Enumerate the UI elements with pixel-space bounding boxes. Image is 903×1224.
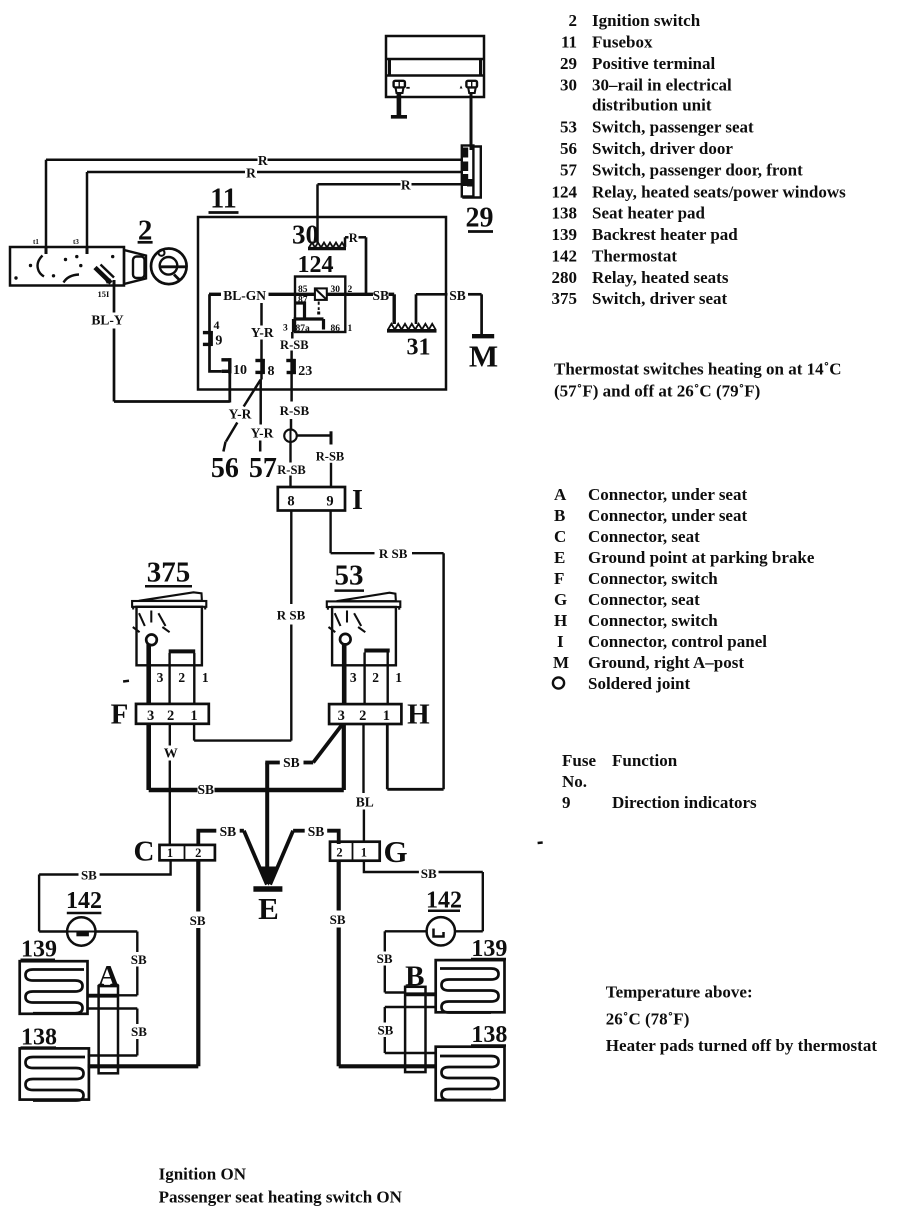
- svg-text:Connector, seat: Connector, seat: [588, 590, 700, 609]
- lamp rays 375: [133, 611, 170, 633]
- svg-text:30–rail in electrical: 30–rail in electrical: [592, 76, 732, 95]
- svg-text:29: 29: [560, 54, 577, 73]
- svg-text:Relay, heated seats/power wind: Relay, heated seats/power windows: [592, 183, 846, 202]
- connector B: [405, 987, 425, 1072]
- wire SB diagonal from H pin 3: [313, 725, 342, 763]
- wire pad 139 return loop: [88, 1007, 138, 1009]
- fuse terminal staple 4: [203, 331, 213, 346]
- svg-text:Connector, control panel: Connector, control panel: [588, 632, 767, 651]
- svg-text:A: A: [554, 485, 567, 504]
- svg-text:56: 56: [560, 139, 577, 158]
- svg-text:3: 3: [147, 708, 154, 724]
- wire BL below H pin 2: [362, 724, 364, 793]
- svg-text:I: I: [352, 485, 363, 516]
- svg-text:2: 2: [359, 708, 366, 724]
- svg-text:Connector, switch: Connector, switch: [588, 569, 718, 588]
- svg-text:R-SB: R-SB: [316, 449, 344, 463]
- relay coil feed wires: [295, 293, 315, 296]
- ignition switch contact curve left: [38, 256, 44, 277]
- svg-text:SB: SB: [373, 288, 390, 303]
- lamp 375: [146, 635, 157, 646]
- svg-text:Temperature above:: Temperature above:: [606, 983, 753, 1002]
- svg-text:Y-R: Y-R: [251, 426, 274, 441]
- svg-text:SB: SB: [220, 824, 237, 839]
- svg-text:8: 8: [287, 493, 294, 509]
- svg-text:distribution unit: distribution unit: [592, 96, 712, 115]
- terminal staple 8: [255, 359, 264, 374]
- wire pad 138 feed bold (right): [339, 1064, 436, 1068]
- switch 53: [327, 559, 402, 704]
- wire battery positive to terminal 29: [470, 93, 473, 150]
- wire BL-GN relay 85 to fuse: [269, 293, 296, 296]
- svg-text:BL: BL: [356, 794, 374, 809]
- svg-text:23: 23: [298, 364, 312, 379]
- svg-text:1: 1: [190, 708, 197, 724]
- svg-text:Fuse: Fuse: [562, 751, 596, 770]
- wire 30-rail to relay (R): [344, 237, 347, 247]
- svg-text:Thermostat switches heating on: Thermostat switches heating on at 14˚C: [554, 360, 842, 379]
- heater pad 138 (right): [436, 1047, 505, 1101]
- svg-text:375: 375: [552, 289, 578, 308]
- wire SB drop to ground E: [265, 763, 269, 869]
- svg-text:2: 2: [569, 11, 578, 30]
- wire pin 1: [387, 653, 389, 705]
- wire Y-R stub to 57 (vertical): [259, 380, 262, 425]
- svg-text:t3: t3: [73, 238, 79, 246]
- ground E bar: [253, 886, 282, 892]
- relay armature (dashed): [318, 302, 320, 311]
- svg-text:87a: 87a: [296, 324, 311, 334]
- svg-text:SB: SB: [308, 824, 325, 839]
- svg-text:G: G: [383, 834, 407, 869]
- thermostat note: [554, 360, 842, 401]
- wire Y-R relay 87 branch: [260, 303, 263, 326]
- svg-text:53: 53: [560, 118, 577, 137]
- svg-text:R SB: R SB: [379, 546, 408, 561]
- wire SB bus horizontal: [149, 788, 198, 792]
- wire lamp stem 375 (pin 3): [146, 644, 151, 704]
- svg-text:57: 57: [560, 161, 578, 180]
- svg-text:2: 2: [372, 670, 379, 685]
- svg-text:Passenger seat heating switch: Passenger seat heating switch ON: [159, 1188, 403, 1207]
- soldered joint: [289, 429, 291, 442]
- relay contact bar: [294, 317, 324, 320]
- wire SB bold from G pin 2 down: [337, 861, 341, 911]
- svg-text:10: 10: [233, 363, 247, 378]
- svg-text:I: I: [557, 632, 564, 651]
- wire SB bold below H pin 3: [342, 724, 346, 790]
- wire pad 139 feed through A: [88, 994, 119, 998]
- ignition switch 2: [10, 247, 124, 286]
- rocker 375: [139, 592, 202, 601]
- svg-text:W: W: [164, 747, 178, 762]
- svg-text:8: 8: [268, 364, 275, 379]
- svg-text:Relay, heated seats: Relay, heated seats: [592, 268, 729, 287]
- wire SB stub from G2: [327, 831, 339, 844]
- pin tick (terminal 3): [86, 247, 89, 254]
- body 53: [332, 607, 396, 665]
- svg-text:138: 138: [552, 204, 578, 223]
- relay coil: [315, 288, 327, 300]
- svg-text:R: R: [349, 231, 359, 245]
- pin tick (terminal 1): [45, 247, 48, 254]
- svg-text:SB: SB: [190, 913, 206, 928]
- wire R-SB joint to pin 8: [289, 442, 291, 462]
- wire SB from G pin 1 to thermostat (right): [364, 861, 419, 872]
- svg-text:B: B: [554, 506, 565, 525]
- wire riser to fuse terminal 10: [228, 359, 231, 403]
- wire R-SB joint branch to pin 9: [297, 434, 331, 436]
- wire R-SB to soldered joint: [290, 419, 293, 429]
- heater pad 139 (right): [436, 960, 505, 1012]
- wire battery negative stem: [397, 93, 402, 116]
- svg-text:BL-GN: BL-GN: [223, 288, 266, 303]
- wire pin 2: [363, 653, 365, 705]
- svg-text:2: 2: [195, 846, 201, 860]
- svg-text:A: A: [98, 960, 119, 992]
- svg-text:R: R: [258, 153, 268, 168]
- svg-text:M: M: [553, 653, 569, 672]
- wire SB bold from C pin 2 down: [196, 860, 200, 911]
- svg-text:3: 3: [338, 708, 345, 724]
- svg-text:Positive terminal: Positive terminal: [592, 54, 715, 73]
- svg-text:1: 1: [202, 670, 209, 685]
- svg-text:R-SB: R-SB: [280, 403, 310, 418]
- svg-text:Ignition switch: Ignition switch: [592, 11, 701, 30]
- svg-text:11: 11: [210, 184, 236, 215]
- connector I: [278, 487, 345, 511]
- bezel 53: [327, 601, 401, 607]
- rocker 53: [337, 593, 396, 602]
- svg-text:Ground point at parking brake: Ground point at parking brake: [588, 548, 815, 567]
- wire SB from C pin 1 to thermostat: [100, 860, 171, 874]
- relay contact 87 stub: [295, 303, 305, 319]
- svg-text:G: G: [554, 590, 567, 609]
- svg-text:R-SB: R-SB: [277, 463, 305, 477]
- lamp rays 53: [329, 611, 366, 633]
- svg-text:30: 30: [292, 220, 319, 250]
- wire R SB from I pin 9: [329, 511, 331, 554]
- battery 1: [386, 36, 484, 97]
- svg-text:142: 142: [66, 888, 102, 914]
- svg-text:Heater pads turned off by ther: Heater pads turned off by thermostat: [606, 1036, 878, 1055]
- fuse table: [562, 751, 757, 812]
- svg-text:(57˚F) and off at 26˚C (79˚F): (57˚F) and off at 26˚C (79˚F): [554, 382, 760, 401]
- svg-text:1: 1: [361, 845, 367, 859]
- wire lamp stem 53 (pin 3): [342, 643, 347, 704]
- wire pin 2: [168, 653, 170, 704]
- heater pad 138 (left): [20, 1048, 89, 1099]
- heater pad 139 (left): [20, 961, 88, 1014]
- ignition switch contact dots: [14, 255, 114, 280]
- svg-text:Connector, seat: Connector, seat: [588, 527, 700, 546]
- legend connector list: [553, 485, 815, 693]
- svg-text:86: 86: [331, 324, 341, 334]
- svg-text:R-SB: R-SB: [280, 338, 308, 352]
- wire SB stub from C2: [198, 831, 216, 844]
- svg-text:1: 1: [383, 708, 390, 724]
- ground bar at battery negative: [391, 115, 407, 119]
- wire SB relay to rail 31: [345, 293, 373, 296]
- svg-text:124: 124: [552, 183, 578, 202]
- svg-text:C: C: [134, 836, 155, 868]
- svg-text:Switch, driver door: Switch, driver door: [592, 139, 733, 158]
- svg-text:Switch, passenger seat: Switch, passenger seat: [592, 118, 754, 137]
- svg-text:SB: SB: [377, 1022, 393, 1037]
- svg-text:Y-R: Y-R: [229, 407, 252, 422]
- svg-text:Fusebox: Fusebox: [592, 33, 653, 52]
- svg-text:Y-R: Y-R: [251, 325, 274, 340]
- wire R-SB relay 87a branch: [291, 332, 294, 339]
- svg-text:Direction indicators: Direction indicators: [612, 793, 757, 812]
- svg-text:SB: SB: [131, 1024, 147, 1039]
- positive terminal 29: [462, 146, 481, 198]
- wire SB thermostat to connector B: [385, 930, 427, 932]
- bezel 375: [132, 601, 206, 607]
- wire pad 139 feed through B (right): [405, 992, 436, 996]
- svg-text:Ground, right A–post: Ground, right A–post: [588, 653, 744, 672]
- wire R battery rail 1: [268, 159, 462, 162]
- ignition switch output tick: [113, 280, 116, 286]
- svg-text:F: F: [111, 698, 129, 730]
- svg-text:Function: Function: [612, 751, 678, 770]
- svg-text:R: R: [246, 166, 256, 181]
- svg-text:3: 3: [157, 670, 164, 685]
- wire SB thermostat to connector A: [96, 930, 138, 932]
- connector G: [330, 842, 380, 861]
- svg-text:Switch, driver seat: Switch, driver seat: [592, 289, 728, 308]
- switch 375: [132, 557, 209, 704]
- terminal staple 23: [286, 359, 296, 374]
- relay 124: [295, 277, 345, 333]
- rail 31 comb: [387, 324, 437, 331]
- ground E arrowhead: [261, 867, 277, 886]
- svg-text:2: 2: [178, 670, 185, 685]
- connector A: [99, 986, 118, 1073]
- thermostat 142 (right): [427, 917, 455, 945]
- svg-text:2: 2: [167, 708, 174, 724]
- svg-text:SB: SB: [421, 866, 437, 881]
- wire SB diagonal C2 to E: [244, 831, 267, 885]
- svg-text:H: H: [407, 699, 430, 731]
- svg-text:57: 57: [249, 453, 277, 484]
- wire pad 138 return bold: [88, 1064, 199, 1068]
- wire fuse 9 top feed: [210, 294, 222, 371]
- wire R to 30-rail: [412, 183, 462, 186]
- svg-text:280: 280: [552, 268, 578, 287]
- svg-text:B: B: [405, 961, 424, 993]
- svg-text:C: C: [554, 527, 566, 546]
- wire to F pin 1: [194, 739, 291, 741]
- svg-text:SB: SB: [81, 867, 97, 882]
- svg-text:4: 4: [214, 318, 220, 332]
- svg-text:26˚C (78˚F): 26˚C (78˚F): [606, 1010, 690, 1029]
- svg-text:31: 31: [407, 335, 431, 361]
- svg-text:E: E: [554, 548, 565, 567]
- svg-text:1: 1: [348, 324, 353, 334]
- wire BL-Y horizontal run: [114, 400, 230, 403]
- svg-text:SB: SB: [198, 782, 215, 797]
- battery plus mark: [460, 86, 463, 89]
- svg-text:Backrest heater pad: Backrest heater pad: [592, 225, 738, 244]
- 30-rail comb: [308, 243, 346, 249]
- svg-text:BL-Y: BL-Y: [91, 313, 124, 328]
- svg-text:11: 11: [561, 33, 577, 52]
- wire pad 139 return loop (right): [385, 1006, 436, 1008]
- svg-text:29: 29: [466, 203, 494, 234]
- ignition switch key lever: [95, 268, 111, 284]
- svg-text:E: E: [258, 891, 279, 926]
- ignition switch contact curve lower: [64, 275, 80, 283]
- svg-text:3: 3: [350, 670, 357, 685]
- svg-text:15I: 15I: [98, 289, 111, 299]
- label 29: [466, 203, 494, 234]
- battery minus mark: [406, 87, 409, 89]
- wire SB stub to E drop: [304, 761, 314, 765]
- svg-text:9: 9: [326, 493, 333, 509]
- svg-text:142: 142: [552, 247, 578, 266]
- wire Y-R stub to 56 (diagonal): [244, 380, 261, 407]
- connector C: [160, 845, 215, 860]
- wire SB bold below F pin 3: [146, 724, 151, 790]
- wire R battery rail 2: [257, 171, 462, 174]
- svg-text:SB: SB: [283, 755, 300, 770]
- svg-text:139: 139: [552, 225, 578, 244]
- connector F: [136, 704, 209, 724]
- wire BL-Y from ignition switch: [113, 286, 116, 313]
- wire SB diagonal G2 to E: [270, 831, 293, 885]
- battery negative bolt: [394, 81, 405, 93]
- body 375: [137, 607, 202, 666]
- svg-text:3: 3: [283, 324, 288, 334]
- svg-text:Switch, passenger door, front: Switch, passenger door, front: [592, 161, 803, 180]
- svg-text:9: 9: [215, 334, 222, 349]
- svg-text:SB: SB: [131, 952, 147, 967]
- connector H: [329, 704, 401, 724]
- svg-text:Connector, under seat: Connector, under seat: [588, 506, 747, 525]
- svg-text:56: 56: [211, 453, 239, 484]
- svg-text:SB: SB: [330, 912, 346, 927]
- svg-text:Soldered joint: Soldered joint: [588, 674, 691, 693]
- key ring symbol: [151, 248, 187, 284]
- contact bridge 53: [364, 649, 389, 653]
- svg-text:R: R: [401, 177, 411, 192]
- svg-text:Thermostat: Thermostat: [592, 247, 677, 266]
- svg-text:t1: t1: [33, 238, 39, 246]
- svg-text:Connector, under seat: Connector, under seat: [588, 485, 747, 504]
- svg-text:2: 2: [336, 845, 342, 859]
- legend component list: [552, 11, 847, 308]
- wire rail 31 to ground M: [415, 294, 418, 324]
- svg-text:124: 124: [298, 252, 334, 278]
- svg-text:R SB: R SB: [277, 608, 306, 623]
- stray mark right of G: [538, 841, 543, 844]
- svg-text:Ignition ON: Ignition ON: [159, 1165, 247, 1184]
- contact bridge 375: [169, 649, 196, 653]
- fusebox 11: [198, 217, 446, 390]
- svg-text:53: 53: [335, 559, 364, 591]
- stray mark left of switch 375: [123, 680, 129, 683]
- wire to H pin 1: [387, 788, 443, 791]
- fuse terminal staple 10: [221, 358, 231, 373]
- lamp 53: [340, 634, 351, 645]
- thermostat 142 (left): [67, 917, 95, 945]
- svg-text:SB: SB: [377, 951, 393, 966]
- wire pin 1: [193, 653, 195, 704]
- temperature note: [606, 983, 878, 1056]
- svg-text:1: 1: [167, 846, 173, 860]
- wire R SB from I pin 8: [290, 511, 292, 605]
- battery positive bolt: [466, 81, 477, 93]
- svg-text:SB: SB: [449, 288, 466, 303]
- wire W below F pin 2: [169, 724, 171, 746]
- ignition switch housing extension: [124, 250, 146, 284]
- svg-text:1: 1: [395, 670, 402, 685]
- soldered joint legend symbol: [553, 677, 564, 688]
- svg-text:Connector, switch: Connector, switch: [588, 611, 718, 630]
- svg-text:Seat heater pad: Seat heater pad: [592, 204, 706, 223]
- svg-text:H: H: [554, 611, 567, 630]
- ground M: [472, 334, 494, 338]
- svg-text:M: M: [469, 339, 498, 374]
- svg-text:F: F: [554, 569, 564, 588]
- svg-text:30: 30: [560, 76, 577, 95]
- condition note: [159, 1165, 403, 1207]
- svg-text:9: 9: [562, 793, 571, 812]
- svg-text:No.: No.: [562, 772, 587, 791]
- svg-text:375: 375: [147, 557, 191, 589]
